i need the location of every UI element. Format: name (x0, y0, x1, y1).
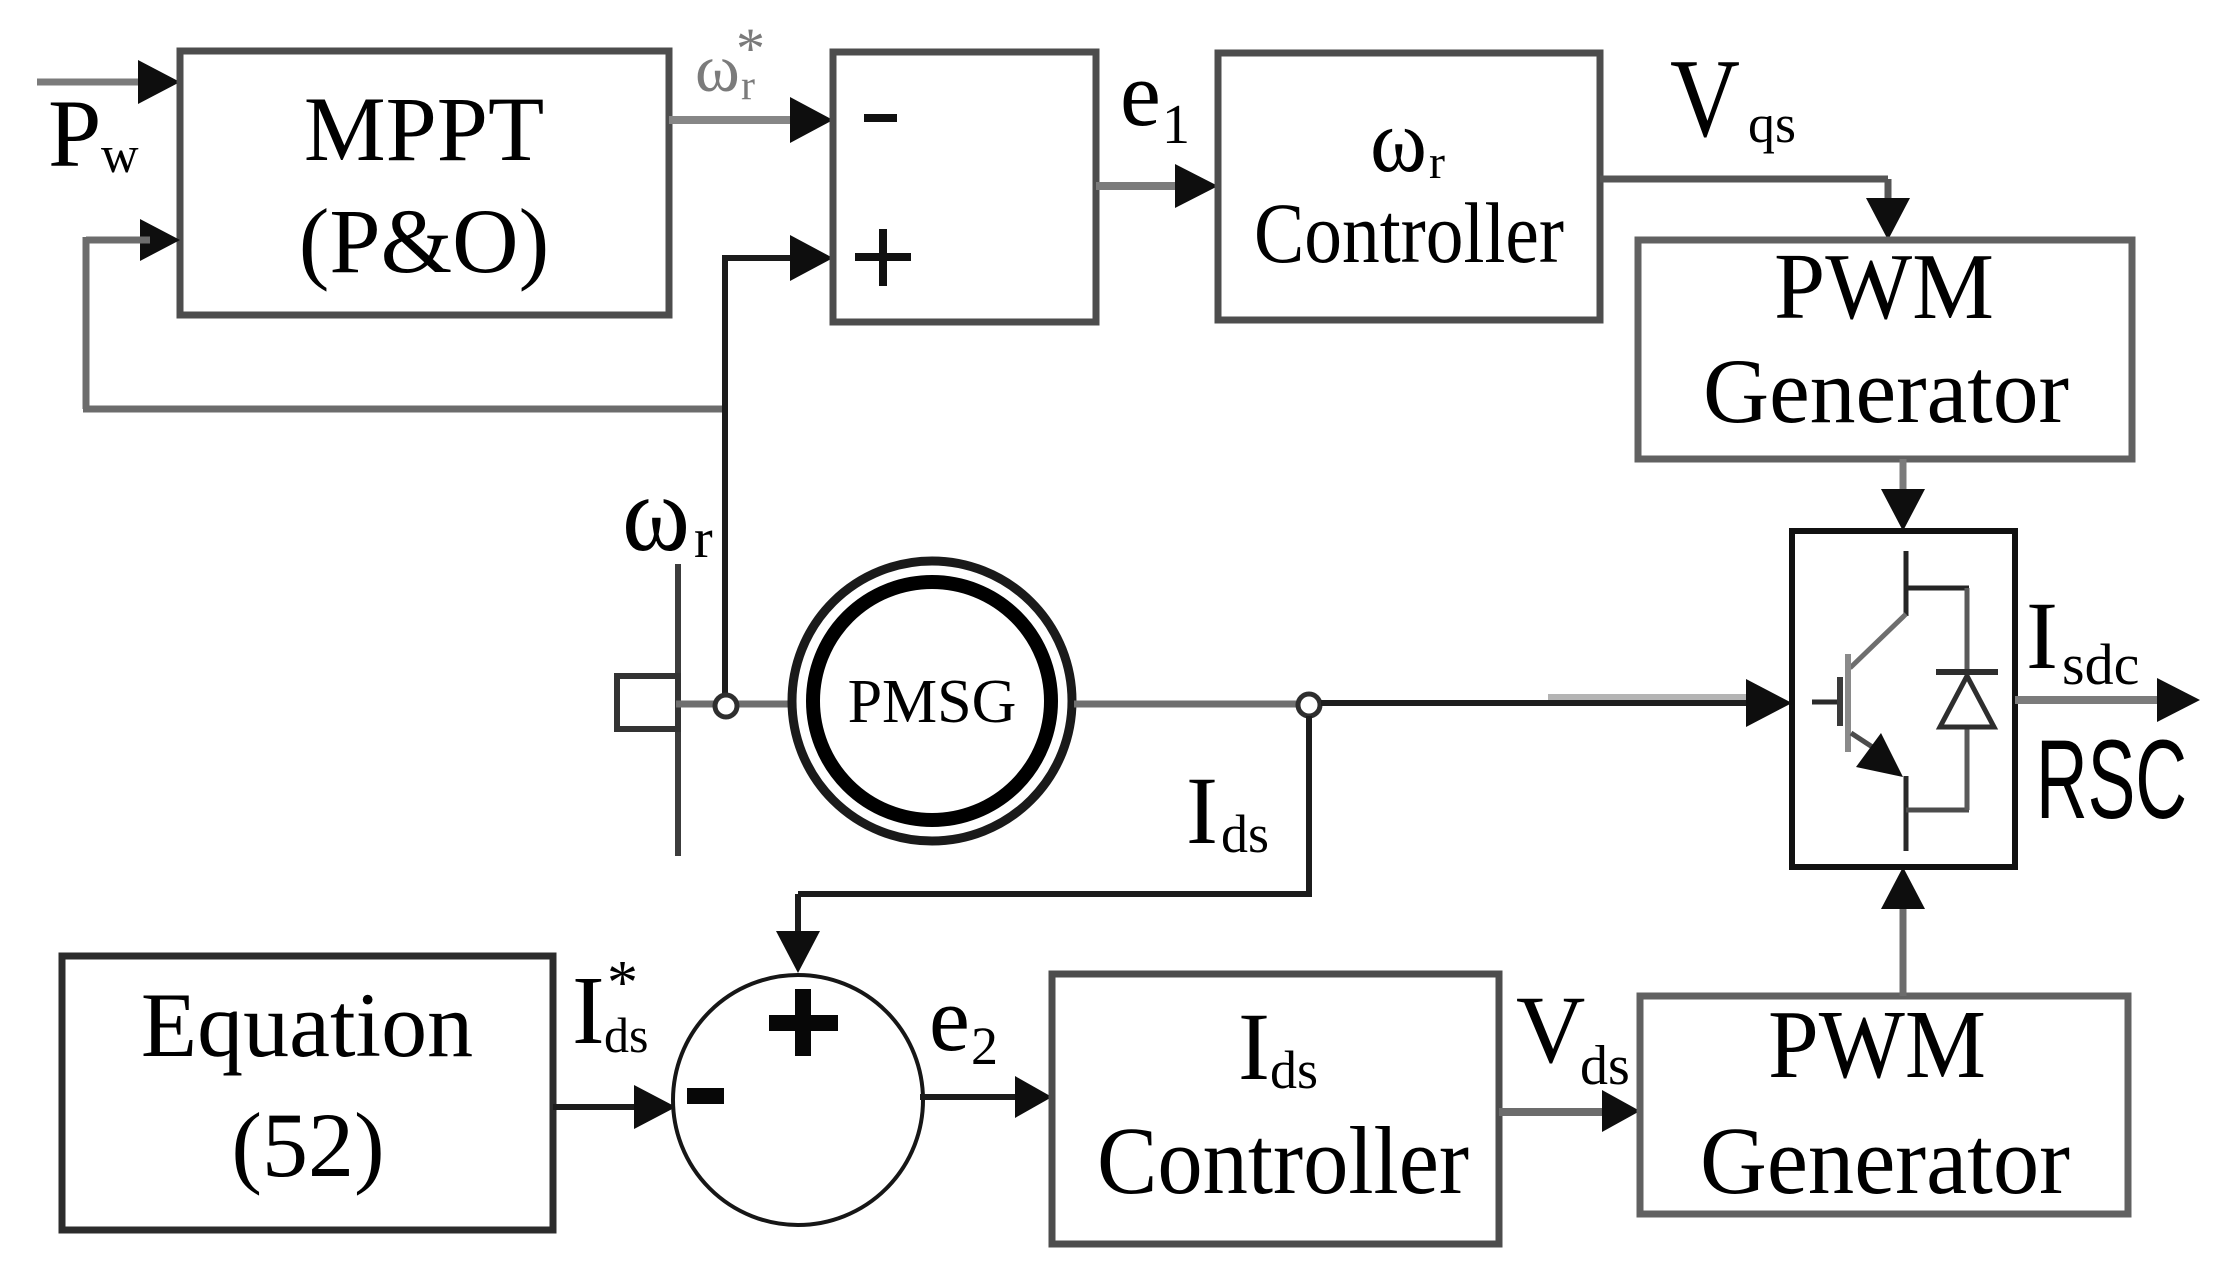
wire Ids feedback node to summing circle (776, 716, 1312, 973)
svg-text:Generator: Generator (1703, 340, 2069, 442)
svg-text:ds: ds (1580, 1035, 1630, 1097)
wire PWM generator bottom to RSC (1881, 867, 1925, 996)
transistor IGBT collector lead (1904, 551, 1909, 616)
transistor IGBT body bar (1845, 654, 1851, 752)
svg-text:RSC: RSC (2036, 717, 2187, 842)
svg-text:qs: qs (1748, 94, 1796, 154)
label plus sign in summing box (855, 229, 911, 286)
svg-text:ω: ω (1370, 92, 1427, 191)
label omega_r_star (695, 16, 765, 109)
svg-text:I: I (572, 957, 605, 1065)
svg-text:(P&O): (P&O) (299, 190, 549, 292)
svg-text:Equation: Equation (141, 974, 473, 1076)
svg-text:e: e (1120, 43, 1161, 145)
label plus bold in circle (769, 989, 838, 1056)
transistor IGBT gate lead (1812, 700, 1837, 705)
label Vqs (1670, 37, 1796, 161)
block Ids Controller (1052, 974, 1499, 1244)
wire node to RSC (1321, 679, 1792, 727)
svg-text:PMSG: PMSG (848, 668, 1017, 736)
wire e1 summing box to omega_r controller (1096, 164, 1218, 208)
wire Isdc output (2015, 678, 2200, 722)
label omega_r shaft (622, 455, 713, 574)
wire MPPT output to summing junction minus (669, 97, 833, 143)
svg-text:P: P (48, 80, 101, 187)
svg-text:Generator: Generator (1700, 1107, 2070, 1214)
transistor IGBT gate plate (1837, 677, 1843, 726)
label Isdc (2026, 582, 2139, 697)
generator PMSG (792, 561, 1072, 841)
label Pw (48, 80, 139, 187)
svg-text:ω: ω (695, 30, 740, 106)
wire PMSG output to node (1074, 701, 1296, 708)
svg-text:sdc: sdc (2062, 632, 2139, 697)
transistor IGBT collector diagonal (1850, 614, 1906, 668)
svg-text:I: I (1186, 757, 1218, 864)
wire Vqs controller to PWM generator top (1600, 179, 1910, 240)
block MPPT (P&O) (180, 51, 669, 315)
svg-text:w: w (101, 127, 139, 184)
svg-text:r: r (1429, 136, 1445, 189)
svg-text:I: I (2026, 582, 2058, 689)
svg-text:*: * (736, 16, 765, 81)
diode cathode bar (1936, 669, 1998, 675)
block PWM Generator top (1638, 235, 2132, 459)
svg-text:Controller: Controller (1254, 185, 1564, 281)
svg-text:r: r (694, 508, 713, 570)
block summing box 1 (833, 52, 1096, 322)
wire shaft (676, 701, 794, 708)
label e2 (929, 968, 998, 1076)
block Equation (52) (62, 956, 553, 1230)
svg-text:ω: ω (622, 455, 690, 574)
label Vds (1516, 976, 1630, 1097)
block omega_r Controller (1218, 53, 1600, 320)
node shaft tap (715, 695, 737, 717)
wire IGBT collector to diode top (1906, 586, 1969, 591)
wire Ids_star equation to summing circle (553, 1085, 676, 1129)
diode cathode lead (1965, 588, 1970, 670)
diode triangle (1940, 676, 1994, 727)
label Ids feedback (1186, 757, 1269, 864)
svg-text:PWM: PWM (1768, 991, 1986, 1098)
transistor IGBT emitter diagonal with arrow (1851, 733, 1903, 777)
svg-text:V: V (1516, 976, 1585, 1083)
label minus sign in summing box (864, 114, 897, 122)
node Ids tap (1298, 694, 1320, 716)
wire IGBT emitter to diode bottom (1906, 808, 1969, 813)
svg-text:V: V (1670, 37, 1740, 161)
diode anode lead (1965, 726, 1970, 810)
wire feedback omega_r to MPPT second input (83, 219, 725, 409)
block PWM Generator bottom (1640, 991, 2128, 1214)
wire e2 summing circle to Ids controller (920, 1076, 1052, 1118)
wind turbine blade (675, 564, 681, 856)
wire PWM generator top to RSC (1881, 459, 1925, 531)
svg-text:*: * (607, 949, 638, 1017)
svg-text:1: 1 (1162, 94, 1190, 156)
svg-text:Controller: Controller (1097, 1107, 1469, 1214)
svg-text:ds: ds (1270, 1040, 1318, 1100)
label minus bold in circle (687, 1088, 724, 1104)
block RSC converter (1792, 531, 2015, 867)
label e1 (1120, 43, 1190, 156)
svg-text:PWM: PWM (1774, 235, 1994, 339)
svg-text:ds: ds (1221, 804, 1269, 864)
label Ids_star (572, 949, 648, 1065)
summing circle 2 (673, 975, 923, 1225)
wind turbine hub square (617, 676, 678, 729)
wire Vds controller to PWM generator bottom (1499, 1090, 1640, 1132)
svg-text:MPPT: MPPT (304, 78, 544, 180)
transistor IGBT emitter lead (1904, 776, 1909, 851)
wire omega_r vertical to summing plus input (722, 235, 833, 696)
svg-text:2: 2 (971, 1016, 998, 1076)
svg-text:(52): (52) (231, 1094, 384, 1196)
svg-text:I: I (1238, 993, 1270, 1100)
svg-text:e: e (929, 968, 970, 1070)
wire Pw input (37, 60, 180, 104)
